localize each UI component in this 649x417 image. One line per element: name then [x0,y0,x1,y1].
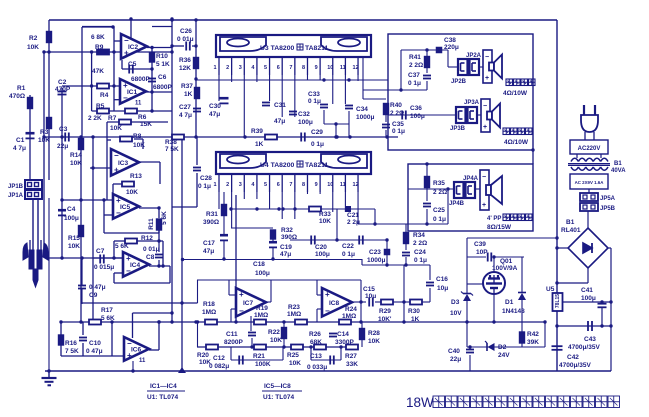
wire y303 row [82,302,198,304]
wire U4 pin 1 drop [218,192,220,209]
junction [42,50,45,53]
wire U3 pin 7 drop [294,75,296,117]
svg-text:R27: R27 [345,353,357,360]
svg-text:R11: R11 [148,218,155,230]
speaker woofer speaker [480,170,502,210]
svg-text:4Ω/10W: 4Ω/10W [503,90,528,97]
junction [555,324,558,327]
op-amp IC6 [124,337,149,364]
wire [283,339,285,347]
junction [348,135,351,138]
junction [600,300,603,303]
wire [587,268,589,283]
wire [121,60,123,69]
svg-text:10K': 10K' [378,316,392,323]
op-amp IC2 [121,34,147,59]
resistor R17 [89,320,101,325]
svg-text:1MΩ: 1MΩ [202,309,216,316]
junction [282,345,285,348]
svg-text:8: 8 [302,182,305,188]
svg-text:C32: C32 [298,111,310,118]
capacitor C4 [58,209,66,216]
svg-text:10K: 10K [110,125,122,132]
svg-text:C35: C35 [392,121,404,128]
resistor R20 [206,345,218,350]
wire [114,240,126,242]
svg-text:R7: R7 [108,115,117,122]
wire [310,347,312,360]
wire [283,322,285,328]
svg-text:C1: C1 [16,137,25,144]
svg-text:C16: C16 [436,276,448,283]
wire C2 C4 column [61,88,63,258]
svg-text:B1: B1 [566,219,575,226]
svg-text:IC5—IC8: IC5—IC8 [264,383,291,390]
svg-text:R24: R24 [345,306,357,313]
svg-text:D2: D2 [498,344,507,351]
wire [408,188,454,190]
capacitor C42 [552,346,563,350]
svg-text:C20: C20 [315,244,327,251]
wire [429,288,431,302]
wire right border rail upper [556,20,558,293]
wire [131,121,168,123]
junction [555,281,558,284]
pin 10 of U3 [332,57,334,75]
svg-text:33K: 33K [346,361,358,368]
wire U4 pin 4 drop [256,192,258,199]
wire [429,265,431,280]
svg-text:2: 2 [226,65,229,71]
junction [196,320,199,323]
svg-text:390Ω: 390Ω [203,219,219,226]
capacitor C16 [426,283,434,286]
op-amp IC1 [120,79,146,107]
AC plug [581,105,598,140]
svg-text:7: 7 [289,182,292,188]
wire R9 row [44,51,121,53]
wire IC6 pin 11 ground [132,361,134,371]
svg-text:R37: R37 [181,83,193,90]
wire [405,257,407,265]
junction [543,320,546,323]
svg-text:6: 6 [277,182,280,188]
wire [336,209,338,240]
junction [170,18,173,21]
svg-text:R28: R28 [368,330,380,337]
junction [59,320,62,323]
resistor R15 [79,226,84,237]
speaker midrange speaker [483,50,502,83]
connector JP1B [25,180,42,189]
wire [608,247,611,249]
svg-text:IC4: IC4 [130,262,141,269]
svg-text:AC 2X9V 1.6A: AC 2X9V 1.6A [575,180,605,185]
svg-text:4' PP: 4' PP [487,216,501,222]
svg-text:0 1μ: 0 1μ [408,80,421,87]
pin 5 of U4 [269,174,271,192]
svg-text:5: 5 [264,182,267,188]
junction [425,222,428,225]
wire [230,347,232,360]
wire IC1 plus input row [62,85,120,87]
svg-text:C40: C40 [448,348,460,355]
svg-text:C29: C29 [311,129,323,136]
wire [388,114,456,116]
svg-text:11: 11 [135,101,142,107]
svg-text:47μ: 47μ [280,251,291,258]
junction [91,166,94,169]
wire Q01 drain [493,257,495,272]
wire [192,45,196,47]
junction [468,345,471,348]
junction [465,320,468,323]
resistor R9 [97,50,109,55]
svg-text:1K: 1K [255,141,264,148]
capacitor C8 [155,255,163,258]
svg-text:47μ: 47μ [274,118,285,125]
junction [277,207,280,210]
capacitor C43 [588,321,592,331]
underline [262,390,302,392]
wire [223,241,225,259]
junction [385,135,388,138]
power amplifier IC U4 [216,152,371,174]
junction [293,207,296,210]
junction [492,320,495,323]
wire [82,322,84,335]
svg-text:18W: 18W [406,395,434,410]
connector JP2B [470,59,480,75]
svg-text:C17: C17 [203,240,215,247]
wire R7 column [106,122,108,200]
svg-text:10K: 10K [68,243,80,250]
wire [162,241,164,266]
svg-text:0 1μ: 0 1μ [198,183,211,190]
wire to R10 [151,48,153,54]
capacitor C17 [220,234,228,241]
wire C23 column [386,240,388,265]
wire U3 pin 10 drop [332,75,334,104]
wire U4 pin 7 drop [294,192,296,219]
wire rail x236 [235,195,237,322]
wire IC6 minus drop [132,313,134,338]
capacitor C28 [193,168,201,171]
pin 4 of U4 [256,174,258,192]
wire rail x172 [171,20,173,322]
connector JP1A [25,190,42,199]
svg-text:R23: R23 [288,304,300,311]
junction [42,135,45,138]
resistor R8 [120,137,132,142]
wire IC2 power pin [130,19,132,38]
svg-text:0 01μ: 0 01μ [177,36,194,43]
junction [234,320,237,323]
junction [334,135,337,138]
junction [157,206,160,209]
wire [158,241,160,252]
pin 6 of U4 [281,174,283,192]
wire jack feed / ground column [48,198,50,371]
junction [555,236,558,239]
svg-text:R42: R42 [527,331,539,338]
zener diode D3 [461,292,473,302]
svg-text:0 082μ: 0 082μ [209,363,229,370]
svg-text:10P: 10P [476,249,488,256]
wire C5 row [122,68,152,70]
svg-text:R39: R39 [251,128,263,135]
wire to bus [403,302,405,322]
svg-text:10K: 10K [319,218,331,225]
svg-text:R33: R33 [319,211,331,218]
svg-text:−: − [482,174,486,181]
svg-text:R1: R1 [17,85,26,92]
wire to rail [172,206,197,208]
capacitor C34 [345,106,353,109]
junction [446,187,449,190]
junction [80,256,83,259]
svg-text:22μ: 22μ [450,356,461,363]
svg-text:R16: R16 [65,340,77,347]
capacitor C30 [220,97,229,104]
wire [60,345,62,356]
svg-text:0 1μ: 0 1μ [308,98,321,105]
svg-text:+: + [485,75,489,82]
junction [609,300,612,303]
junction [170,50,173,53]
svg-text:JP3B: JP3B [450,126,466,132]
svg-text:C23: C23 [369,249,381,256]
junction [282,320,285,323]
wire [134,138,143,140]
wire [196,173,198,207]
svg-text:+: + [482,202,486,209]
svg-text:6800P: 6800P [131,76,150,83]
wire node A bus right [121,51,172,53]
svg-text:IC3: IC3 [118,160,129,167]
wire top supply rail [49,19,557,21]
junction [157,320,160,323]
capacitor C11 [248,333,256,336]
svg-text:R5: R5 [96,103,105,110]
svg-text:470P: 470P [55,86,71,93]
svg-text:C21: C21 [347,212,359,219]
svg-text:47μ: 47μ [209,111,220,118]
resistor R34 [404,233,409,244]
op-amp IC8 [322,288,352,317]
junction [194,18,197,21]
resistor R12 [125,239,137,244]
junction [609,324,612,327]
wire C25 drop [426,209,428,224]
wire R34 column [405,224,407,234]
wire C13 loop [311,359,341,361]
capacitor C7 [100,255,104,264]
svg-text:100μ: 100μ [255,270,270,277]
wire IC2 output [147,47,172,49]
pin 12 of U4 [357,174,359,192]
junction [60,135,63,138]
svg-text:C18: C18 [253,261,265,268]
pin 4 of U3 [256,57,258,75]
wire [114,272,123,274]
wire [361,340,363,347]
wire IC7 IC8 feedback top [197,279,361,281]
svg-text:+: + [239,290,244,299]
junction [112,50,115,53]
pin 5 of U3 [269,57,271,75]
wire [251,338,253,347]
wire U3 pin 5 drop [269,75,271,101]
label label woofer chinese 2 [503,214,532,221]
resistor R32 [271,230,276,239]
wire JP4 drop [447,189,449,224]
svg-text:C26: C26 [180,28,192,35]
junction [150,67,153,70]
transformer B1 windings [568,158,610,170]
junction [150,46,153,49]
svg-text:C24: C24 [414,249,426,256]
op-amp IC7 [236,288,266,317]
wire U4 pin 2 drop [231,192,233,228]
wire [323,110,325,124]
junction [90,84,93,87]
svg-text:10: 10 [327,182,333,188]
junction [112,84,115,87]
wire IC6 plus input [61,355,124,357]
resistor R42 [520,332,525,343]
svg-text:100μ: 100μ [410,113,425,120]
svg-text:8: 8 [302,65,305,71]
capacitor C12 [239,356,243,365]
svg-text:−: − [239,307,244,316]
junction [150,109,153,112]
connector JP5B [580,203,598,211]
svg-text:10K: 10K [70,160,82,167]
svg-text:R20: R20 [197,352,209,359]
svg-text:C3: C3 [59,126,68,133]
resistor R13 [122,182,134,187]
junction [194,320,197,323]
wire IC8 feedback drop [360,280,362,302]
pin 9 of U3 [319,57,321,75]
svg-text:47μ: 47μ [203,248,214,255]
svg-text:R22: R22 [268,329,280,336]
wire [544,322,546,347]
svg-text:1MΩ: 1MΩ [254,312,268,319]
junction [90,50,93,53]
svg-text:2: 2 [226,182,229,188]
junction [110,320,113,323]
wire U4 pin 8 drop [306,192,308,194]
svg-text:5 6K: 5 6K [161,211,168,225]
svg-text:10μ: 10μ [365,293,376,300]
connector JP4B [466,182,476,198]
capacitor C19 [269,241,277,248]
svg-text:R36: R36 [179,57,191,64]
capacitor C23 [384,249,391,256]
svg-text:R21: R21 [253,353,265,360]
junction [157,264,160,267]
junction [112,256,115,259]
speaker box 2 border (woofer) [408,164,533,231]
svg-text:4 7μ: 4 7μ [13,145,26,152]
wire R14 R15 column [80,137,82,322]
wire [426,188,428,201]
svg-text:IC6: IC6 [131,346,142,353]
transformer secondary box [570,174,608,189]
wire [466,238,468,293]
svg-text:0 1μ: 0 1μ [433,216,446,223]
resistor R10 [150,53,155,62]
capacitor C33 [320,105,328,108]
pin 2 of U3 [231,57,233,75]
wire [422,301,430,303]
svg-text:+: + [325,290,330,299]
svg-text:IC1—IC4: IC1—IC4 [150,383,177,390]
svg-text:C19: C19 [280,244,292,251]
capacitor C1 [26,132,35,139]
wire [466,301,468,347]
wire [493,256,524,258]
wire Q01 gate [467,283,483,285]
junction [255,207,258,210]
svg-text:5: 5 [264,65,267,71]
wire [557,325,611,327]
resistor R36 [194,58,199,69]
regulator U5 78L15 [553,293,563,311]
wire U3 pin 11 drop [344,75,346,104]
junction [157,239,160,242]
wire [317,294,322,296]
capacitor C9 [78,286,86,289]
svg-text:R15: R15 [68,235,80,242]
wire [107,139,111,141]
svg-text:C28: C28 [200,175,212,182]
svg-text:68K: 68K [310,339,322,346]
pin 9 of U4 [319,174,321,192]
svg-text:−: − [325,307,330,316]
svg-text:R4: R4 [100,92,109,99]
svg-text:R6: R6 [138,114,147,121]
wire U4 pin 6 drop [281,192,283,219]
junction [425,48,428,51]
wire left vertical [43,52,45,250]
svg-text:11: 11 [340,65,346,71]
svg-text:4700μ/35V: 4700μ/35V [559,362,591,369]
capacitor C13 [330,356,334,365]
label title chinese characters [433,396,620,408]
resistor R4 [97,84,109,89]
junction [335,238,338,241]
svg-text:R9: R9 [95,44,104,51]
wire [426,68,428,73]
svg-text:100μ: 100μ [315,251,330,258]
capacitor C14 [329,334,337,337]
wire [576,154,578,158]
svg-text:C2: C2 [58,79,67,86]
resistor R3 [47,118,52,129]
op-amp IC4 [123,252,149,277]
svg-text:5 1K: 5 1K [156,61,170,68]
wire [467,346,545,348]
wire IC3 output [139,161,160,163]
junction [250,345,253,348]
wire output return [363,89,427,91]
svg-text:C42: C42 [567,354,579,361]
svg-text:C37: C37 [408,72,420,79]
svg-text:B1: B1 [614,161,622,167]
